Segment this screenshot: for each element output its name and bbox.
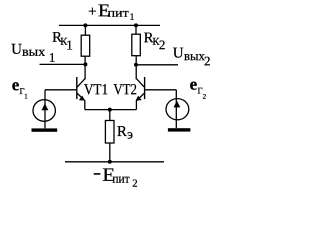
source eg2 arrow bbox=[174, 101, 181, 108]
source eg2 circle bbox=[166, 99, 189, 120]
wire eg1 through-line bbox=[44, 100, 46, 128]
node rail dot left bbox=[83, 23, 87, 27]
resistor RK1 bbox=[81, 35, 90, 56]
ground eg2 bbox=[168, 128, 191, 131]
transistor VT1 emitter diagonal bbox=[77, 93, 84, 100]
wire VT1 emitter vertical bbox=[84, 100, 86, 109]
svg-text:1: 1 bbox=[130, 13, 135, 23]
wire Uvyh1 tap bbox=[40, 63, 86, 65]
svg-text:e: e bbox=[190, 75, 198, 94]
svg-text:1: 1 bbox=[24, 93, 28, 101]
svg-text:+: + bbox=[88, 4, 96, 20]
wire eg2 top lead bbox=[175, 90, 177, 99]
ground eg1 bbox=[32, 128, 58, 131]
node rail dot right bbox=[134, 23, 138, 27]
svg-text:2: 2 bbox=[203, 93, 207, 101]
wire +Epit rail bbox=[59, 24, 160, 26]
node Uvyh1 dot bbox=[83, 62, 87, 66]
source eg1 arrow bbox=[42, 103, 49, 110]
svg-text:R: R bbox=[117, 124, 127, 140]
wire Rk2 top lead bbox=[135, 25, 137, 34]
label -Epit2 dash bbox=[94, 173, 101, 175]
wire emitter join bbox=[85, 109, 137, 111]
svg-text:вых: вых bbox=[184, 48, 205, 63]
wire eg2 through-line bbox=[175, 99, 177, 129]
node -Epit dot bbox=[108, 160, 112, 164]
wire VT1 base lead bbox=[45, 89, 76, 91]
wire Rk1 bottom lead to collector bbox=[84, 56, 86, 79]
resistor RK2 bbox=[132, 34, 141, 56]
resistor Re bbox=[105, 121, 114, 144]
transistor VT2 emitter diagonal bbox=[137, 93, 144, 100]
svg-text:э: э bbox=[127, 126, 133, 141]
wire Re bottom lead bbox=[109, 143, 111, 162]
wire VT1 collector diagonal bbox=[77, 78, 85, 87]
svg-text:пит: пит bbox=[112, 171, 129, 186]
wire VT2 collector diagonal bbox=[136, 78, 144, 87]
svg-text:1: 1 bbox=[49, 50, 56, 65]
svg-text:пит: пит bbox=[108, 6, 130, 20]
transistor VT1 base bar bbox=[76, 77, 78, 99]
wire eg1 top lead bbox=[44, 90, 46, 100]
wire Re top lead bbox=[109, 110, 111, 121]
node emitter join dot bbox=[108, 108, 112, 112]
svg-text:2: 2 bbox=[132, 178, 137, 190]
transistor VT2 base bar bbox=[144, 77, 146, 99]
svg-text:VT2: VT2 bbox=[113, 81, 137, 98]
node Uvyh2 dot bbox=[134, 63, 138, 67]
transistor VT2 emitter arrow bbox=[136, 96, 142, 101]
svg-text:VT1: VT1 bbox=[84, 81, 108, 98]
wire VT2 base lead bbox=[145, 89, 176, 91]
wire -Epit rail bbox=[65, 161, 164, 163]
svg-text:U: U bbox=[11, 42, 22, 58]
svg-text:2: 2 bbox=[159, 37, 166, 52]
wire Rk1 top lead bbox=[84, 25, 86, 35]
source eg1 circle bbox=[33, 100, 55, 122]
svg-text:вых: вых bbox=[22, 44, 46, 59]
wire Uvyh2 tap bbox=[136, 64, 178, 66]
svg-text:1: 1 bbox=[66, 38, 73, 53]
wire VT2 emitter vertical bbox=[135, 100, 137, 109]
svg-text:e: e bbox=[12, 75, 20, 94]
svg-text:2: 2 bbox=[204, 53, 211, 68]
transistor VT1 emitter arrow bbox=[79, 96, 85, 101]
wire Rk2 bottom lead to collector bbox=[135, 56, 137, 79]
svg-text:U: U bbox=[173, 45, 184, 61]
